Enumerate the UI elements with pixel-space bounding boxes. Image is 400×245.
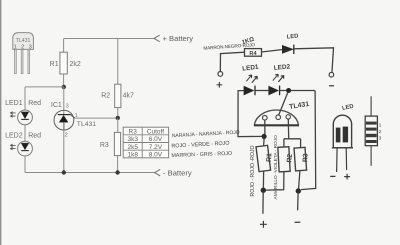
wire right leg down to R3 bottom	[301, 91, 316, 190]
LED package drawing	[330, 104, 354, 180]
svg-text:R3: R3	[129, 129, 138, 136]
svg-text:TL431: TL431	[16, 38, 31, 44]
resistor R4	[245, 49, 262, 57]
wire R1 bottom	[262, 171, 264, 187]
node + mark	[260, 221, 267, 228]
node - Battery terminal arrow	[155, 169, 192, 178]
label LED1 with arrows	[242, 64, 260, 83]
svg-text:Cutoff: Cutoff	[147, 129, 164, 136]
resistor R2 4k7	[101, 84, 134, 107]
svg-text:2k2: 2k2	[70, 61, 81, 68]
diode LED1	[244, 86, 255, 96]
wire LED to - terminal	[294, 48, 334, 72]
svg-text:R1: R1	[50, 61, 59, 68]
svg-text:R3: R3	[302, 153, 310, 162]
diode LED indicator	[282, 45, 294, 54]
label MARRON-NEGRO-ROJO	[203, 42, 255, 51]
resistor package drawing with bands	[365, 96, 381, 166]
svg-text:LED: LED	[287, 33, 299, 40]
svg-text:4k7: 4k7	[123, 93, 134, 100]
wire R2 top	[117, 39, 119, 85]
node R3 bottom junction	[296, 188, 301, 193]
wire + lead	[262, 193, 264, 214]
svg-text:6.0V: 6.0V	[149, 136, 163, 143]
LED1 Red	[5, 100, 41, 125]
wire left pin down	[264, 120, 266, 134]
svg-text:R2: R2	[286, 153, 294, 162]
svg-text:TL431: TL431	[77, 121, 96, 128]
wire R3 bottom	[117, 156, 119, 173]
resistor R3	[100, 132, 121, 155]
svg-text:R1: R1	[266, 153, 274, 162]
label ROJO-ROJO-ROJO rotated	[250, 145, 256, 196]
label ROJO-VERDE-ROJO	[171, 141, 229, 150]
transistor TL431 top view dome	[254, 110, 299, 125]
label NARANJA-NARANJA-ROJO	[172, 130, 240, 140]
node junction IC1 anode / rail	[62, 170, 66, 174]
wire IC1 cathode top	[63, 87, 65, 115]
wire - lead	[297, 194, 300, 211]
wire junction to ref pin diagonal	[279, 92, 288, 115]
wire R3 bottom	[299, 171, 300, 189]
label AMARILLO-VIOLETA-ROJO rotated	[273, 135, 279, 200]
svg-text:7.2V: 7.2V	[149, 144, 163, 151]
wire bottom rail	[25, 172, 154, 174]
node + Battery terminal arrow	[154, 34, 193, 43]
diode LED2	[268, 86, 279, 96]
label LED2 with arrows	[273, 63, 291, 81]
svg-text:ROJO - ROJO -ROJO: ROJO - ROJO -ROJO	[250, 145, 256, 196]
label 1K ohm	[241, 37, 255, 46]
wire R2 bottom	[117, 108, 119, 118]
svg-text:1k8: 1k8	[127, 152, 138, 159]
wire R1 top	[63, 39, 65, 53]
node + terminal	[217, 72, 223, 88]
wire junction to R1	[263, 139, 266, 146]
wire IC1 anode down	[63, 130, 65, 173]
wire LED1-LED2	[255, 90, 268, 92]
wire IC1 ref to divider	[75, 117, 118, 119]
node LED string junction	[286, 88, 291, 93]
svg-text:+ Battery: + Battery	[163, 34, 194, 43]
node - terminal	[329, 72, 334, 85]
svg-text:1: 1	[379, 123, 382, 129]
label MARRON-GRIS-ROJO	[171, 151, 232, 159]
resistor R1 hand	[256, 145, 275, 172]
svg-text:3k3: 3k3	[127, 136, 138, 143]
node left pin junction	[262, 134, 267, 139]
svg-text:2: 2	[379, 129, 382, 135]
TO-92 package TL431	[13, 33, 34, 74]
svg-text:R4: R4	[249, 51, 257, 57]
wire LED2 bottom	[24, 156, 26, 173]
node junction R2/R3/ref	[116, 116, 120, 120]
svg-text:LED2: LED2	[274, 63, 291, 71]
svg-text:- Battery: - Battery	[163, 169, 192, 178]
wire R2 bottom to R1 node	[266, 172, 284, 191]
svg-text:2k5: 2k5	[127, 144, 138, 151]
node R1 bottom junction	[261, 188, 266, 193]
svg-text:3: 3	[66, 104, 69, 110]
LED2 Red	[5, 133, 41, 156]
resistor R1 2k2	[50, 52, 81, 74]
wire LED1-LED2	[24, 125, 26, 141]
svg-text:Red: Red	[28, 100, 41, 107]
table R3/Cutoff	[123, 127, 168, 158]
wire top rail	[64, 38, 154, 40]
wire R1 bottom	[63, 74, 65, 87]
resistor R3 hand	[294, 147, 311, 171]
wire LED2 to right leg	[280, 90, 316, 92]
svg-text:R2: R2	[101, 93, 110, 100]
wire R3 top	[117, 118, 119, 132]
svg-text:R3: R3	[100, 142, 109, 149]
wire right pin down with tee	[284, 119, 301, 147]
node junction R1/LED/IC1	[62, 85, 66, 89]
op-amp IC1 TL431	[51, 102, 96, 138]
scan edge left	[0, 0, 1, 245]
svg-text:IC1: IC1	[51, 102, 62, 109]
svg-text:LED2: LED2	[5, 133, 23, 140]
svg-text:2: 2	[65, 132, 68, 138]
svg-text:8.0V: 8.0V	[149, 152, 163, 159]
wire LED1 top	[24, 87, 26, 110]
label LED	[287, 33, 299, 40]
label TL431 hand	[289, 101, 310, 111]
node - mark	[295, 221, 301, 223]
svg-text:3: 3	[379, 136, 382, 142]
node junction R3 / rail	[115, 170, 119, 174]
svg-text:LED1: LED1	[5, 100, 23, 107]
wire LED string left leg	[238, 91, 262, 137]
svg-text:Red: Red	[28, 133, 41, 140]
wire R4 to LED	[262, 50, 282, 52]
wire to LED branch	[25, 86, 64, 88]
resistor R2 hand	[278, 146, 295, 171]
wire + terminal to R4	[220, 52, 244, 71]
